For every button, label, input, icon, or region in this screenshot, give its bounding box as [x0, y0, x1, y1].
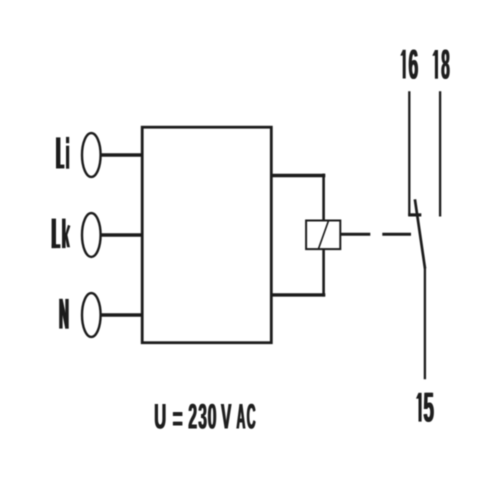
wire N to module — [100, 313, 143, 316]
svg-text:U: U — [155, 397, 167, 437]
svg-text:2: 2 — [189, 396, 198, 436]
svg-text:3: 3 — [199, 398, 208, 437]
terminal label N — [59, 299, 69, 329]
terminal label 15 — [423, 383, 435, 431]
relay coil symbol — [306, 220, 340, 249]
svg-text:5: 5 — [424, 383, 435, 431]
terminal label Li — [56, 137, 69, 169]
svg-text:A: A — [237, 397, 246, 437]
wire Lk to module — [100, 233, 143, 236]
svg-text:8: 8 — [442, 40, 450, 88]
terminal circle Li — [82, 133, 101, 177]
wire coil output — [341, 233, 370, 236]
label U = 230 V AC — [154, 396, 256, 438]
wire module to coil, bottom horizontal — [271, 293, 325, 296]
terminal circle Lk — [82, 213, 101, 257]
dashed actuation link — [382, 233, 411, 236]
svg-text:C: C — [247, 397, 256, 437]
wire module to coil, top horizontal — [271, 174, 325, 177]
wire terminal 15 — [424, 268, 426, 380]
contact 16 tick — [408, 213, 421, 216]
wire terminal 18 — [439, 91, 441, 216]
relay module box K1 — [142, 127, 271, 343]
terminal circle N — [82, 293, 101, 337]
svg-text:0: 0 — [208, 396, 217, 436]
terminal label Lk — [52, 219, 71, 249]
wire coil drop, bottom vertical — [322, 249, 325, 297]
svg-text:V: V — [221, 398, 231, 437]
svg-text:6: 6 — [409, 41, 419, 88]
svg-text:=: = — [173, 399, 183, 438]
terminal label 16 — [408, 41, 419, 88]
wire terminal 16 — [408, 91, 410, 215]
wire coil drop, top vertical — [322, 174, 325, 222]
wire Li to module — [100, 153, 143, 156]
terminal label 18 — [441, 40, 450, 88]
switch arm (changeover contact) — [415, 199, 425, 268]
